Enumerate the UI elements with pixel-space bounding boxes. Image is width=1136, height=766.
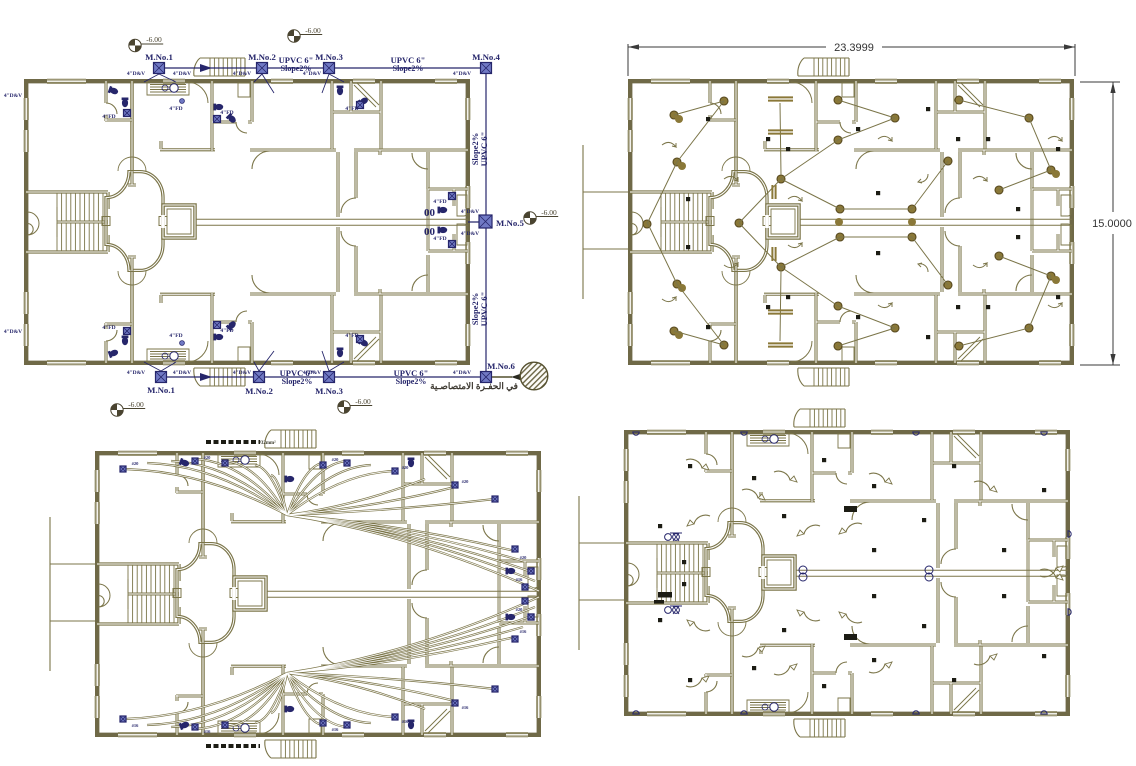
courtyard door arc bottom xyxy=(941,582,956,597)
svg-text:M.No.2: M.No.2 xyxy=(248,52,276,62)
apt1 entry door arcs at hall top xyxy=(722,157,750,171)
p3 conduit fan curves from bottom hub xyxy=(123,597,539,729)
floor plan p2 base walls xyxy=(583,58,1075,386)
p1 left bath bottom fixtures xyxy=(108,348,119,358)
svg-text:Slope2%: Slope2% xyxy=(470,133,480,166)
left bath bottom door arc xyxy=(177,702,188,713)
wall above kitchen bottom xyxy=(764,294,819,303)
p3 dashed feeder bottom xyxy=(206,744,260,748)
apt1 entry door arcs at hall bottom xyxy=(722,271,750,285)
left bath top door arc xyxy=(710,103,721,114)
p1 apt2 bath top fixtures xyxy=(214,104,224,111)
external stair bottom xyxy=(194,368,245,386)
p2 right dimension line 15.0000 xyxy=(1080,82,1120,365)
apt1 entry door arcs at hall top xyxy=(718,508,746,522)
bath3 top shower diagonal xyxy=(425,455,450,479)
right room door arc bottom xyxy=(1012,626,1028,642)
vestibule door arc bottom xyxy=(258,713,279,734)
svg-text:4"D&V: 4"D&V xyxy=(4,329,22,335)
p2 bar feed wires xyxy=(780,103,781,341)
apt2 bath shower top xyxy=(842,83,854,97)
duct opening xyxy=(161,215,165,228)
long wall y=71 right segments xyxy=(425,522,539,527)
stair rails xyxy=(128,579,179,609)
courtyard door arc top xyxy=(341,198,356,213)
apt2 living door arc xyxy=(252,151,270,169)
bath3 top shower diagonal xyxy=(354,83,379,107)
stair treads xyxy=(661,193,707,251)
apt2 bath walls top xyxy=(812,432,852,502)
long wall y=215 right segments xyxy=(425,661,539,666)
hall party wall stubs xyxy=(199,543,207,643)
svg-text:#20: #20 xyxy=(520,555,528,560)
external stair top xyxy=(794,409,845,427)
party wall upper xyxy=(130,81,134,171)
outer wall windows xyxy=(118,451,157,456)
right bath complex walls xyxy=(1028,540,1068,602)
spot elevation marker top-mid xyxy=(288,30,322,42)
duct inner rect xyxy=(167,209,191,234)
duct inner rect xyxy=(238,581,262,606)
svg-text:4"D&V: 4"D&V xyxy=(4,93,22,99)
apartment divider wall bottom xyxy=(930,646,933,714)
svg-text:4"FD: 4"FD xyxy=(220,110,233,116)
apartment divider wall top xyxy=(330,81,333,149)
plan1 plumbing annotations xyxy=(4,52,525,396)
duct opening xyxy=(761,566,765,579)
svg-text:#16: #16 xyxy=(204,729,212,734)
vestibule door arc bottom xyxy=(187,341,208,362)
corridor lines xyxy=(799,219,1072,225)
svg-text:Slope2%: Slope2% xyxy=(282,377,313,386)
apt2 bath shower top xyxy=(838,434,850,448)
apt1 entry door arcs at hall top xyxy=(118,157,146,171)
duct room right of hall xyxy=(234,577,266,610)
party wall lower xyxy=(734,271,738,363)
svg-text:4"D&V: 4"D&V xyxy=(453,370,471,376)
p2 arrow symbols xyxy=(918,174,928,272)
building entry double door on left wall xyxy=(28,212,40,235)
svg-text:#16: #16 xyxy=(516,577,524,582)
p1 pipe arrow top xyxy=(200,64,212,72)
p3 right bath WC fixtures xyxy=(506,568,516,575)
vestibule door arc bottom xyxy=(791,341,812,362)
svg-text:4"FD: 4"FD xyxy=(433,199,446,205)
right room door arc top xyxy=(1016,153,1032,169)
svg-text:4"FD: 4"FD xyxy=(169,106,182,112)
p1 manhole M.No.2 bottom xyxy=(254,372,265,383)
svg-text:#20: #20 xyxy=(204,455,212,460)
courtyard inner wall with door arcs xyxy=(958,152,961,292)
svg-text:4"FD: 4"FD xyxy=(102,114,115,120)
left porch lines xyxy=(583,145,628,299)
p1 riser pipe right xyxy=(468,68,486,377)
svg-text:-6.00: -6.00 xyxy=(355,397,371,406)
p2 beam bars xyxy=(768,97,793,100)
left bath bottom walls xyxy=(176,695,203,735)
p1 manhole M.No.2 top xyxy=(257,63,268,74)
hall side tabs at corridor level xyxy=(173,589,238,598)
courtyard door arc top xyxy=(412,570,427,585)
svg-text:M.No.4: M.No.4 xyxy=(472,52,500,62)
left bath bottom walls xyxy=(705,674,732,714)
svg-text:4"D&V: 4"D&V xyxy=(461,231,479,237)
kitchen counter top xyxy=(218,454,260,467)
apt2 living top wall mirror xyxy=(850,643,936,646)
hall side tabs at corridor level xyxy=(102,217,167,226)
bath3 top walls xyxy=(333,81,381,149)
bath3 top shower diagonal xyxy=(954,434,979,458)
long wall y=215 right segments xyxy=(954,640,1068,645)
right bath complex walls xyxy=(428,189,468,251)
courtyard door arc top xyxy=(941,549,956,564)
wall below kitchen xyxy=(231,513,286,522)
svg-text:4"D&V: 4"D&V xyxy=(461,209,479,215)
kitchen counter top xyxy=(747,433,789,446)
apt2 living door arc xyxy=(856,151,874,169)
svg-text:M.No.1: M.No.1 xyxy=(145,52,173,62)
central hall stadium xyxy=(106,172,163,271)
svg-text:4"D&V: 4"D&V xyxy=(303,71,321,77)
stair room walls xyxy=(97,564,179,624)
left bath top door arc xyxy=(177,475,188,486)
left porch lines xyxy=(50,517,95,671)
svg-text:4"D&V: 4"D&V xyxy=(127,370,145,376)
wall above kitchen bottom xyxy=(231,666,286,675)
stair rails xyxy=(657,558,708,588)
septic pit arrow xyxy=(492,376,512,378)
right rooms wall xyxy=(426,152,429,292)
right room door arc top xyxy=(412,153,428,169)
wall below kitchen xyxy=(764,141,819,150)
right room door arc bottom xyxy=(1016,275,1032,291)
svg-text:4"FD: 4"FD xyxy=(345,106,358,112)
corridor lines xyxy=(795,570,1068,576)
outer wall xyxy=(26,81,468,363)
p1 manhole M.No.5 right xyxy=(479,215,492,228)
floor plan p3 base walls xyxy=(50,430,542,758)
apt2 bath shower top xyxy=(238,83,250,97)
p1 manhole M.No.4 top xyxy=(481,63,492,74)
right bath shower stalls xyxy=(1061,195,1071,245)
external stair bottom xyxy=(794,719,845,737)
right bath shower stalls xyxy=(457,195,467,245)
p4 curved arrow symbols with hollow heads xyxy=(686,459,1056,687)
svg-text:#20: #20 xyxy=(516,607,524,612)
external stair top xyxy=(798,58,849,76)
p1 branch pipes top xyxy=(144,74,344,93)
p4 switch squares xyxy=(688,464,692,468)
svg-text:Slope2%: Slope2% xyxy=(393,64,424,73)
right room door arc bottom xyxy=(412,275,428,291)
svg-text:#32mm²: #32mm² xyxy=(258,440,276,446)
apt2 living bottom wall xyxy=(850,499,936,502)
right bath complex walls xyxy=(499,561,539,623)
apt2 bath walls top xyxy=(816,81,856,151)
stair room walls xyxy=(630,192,712,252)
svg-text:Slope2%: Slope2% xyxy=(396,377,427,386)
wall below kitchen xyxy=(160,141,215,150)
p1 branch pipes bottom xyxy=(144,351,344,371)
external stair top xyxy=(194,58,245,76)
p1 manhole M.No.1 top xyxy=(154,63,165,74)
p4 wall sconce circles xyxy=(633,432,1071,714)
apt2 bath door arc top xyxy=(840,122,851,133)
bath3 top shower diagonal xyxy=(958,83,983,107)
svg-text:M.No.3: M.No.3 xyxy=(315,386,343,396)
left bath bottom door arc xyxy=(706,681,717,692)
vestibule door arc top xyxy=(791,82,812,103)
apt2 living bottom wall xyxy=(321,520,407,523)
bath3 bottom walls xyxy=(933,646,981,714)
apt2 bath door arc bottom xyxy=(836,662,847,673)
kitchen sink bottom xyxy=(770,703,778,711)
duct room right of hall xyxy=(163,205,195,238)
bath3 bottom walls xyxy=(333,295,381,363)
apartment divider wall top xyxy=(934,81,937,149)
right rooms wall xyxy=(1030,152,1033,292)
apt2 bath door arc top xyxy=(836,473,847,484)
bath3 bottom shower diagonal xyxy=(954,688,979,712)
p1 pipe arrow bottom xyxy=(200,373,212,381)
external stair bottom xyxy=(265,740,316,758)
bath3 bottom walls xyxy=(404,667,452,735)
left bath bottom door arc xyxy=(106,330,117,341)
bath3 top walls xyxy=(404,453,452,521)
p1 apt2 bath bottom fixtures xyxy=(214,334,224,341)
stair rails xyxy=(661,207,712,237)
floor plan p4 base walls xyxy=(579,409,1071,737)
corridor lines xyxy=(195,219,468,225)
duct opening xyxy=(232,587,236,600)
party wall lower xyxy=(730,622,734,714)
apartment divider wall top xyxy=(401,453,404,521)
courtyard left wall xyxy=(336,152,339,292)
duct room right of hall xyxy=(763,556,795,589)
party wall lower xyxy=(130,271,134,363)
apt2 bath walls bottom xyxy=(816,293,856,363)
courtyard left wall xyxy=(936,503,939,643)
p1 right bath fixtures xyxy=(438,207,448,214)
courtyard inner wall with door arcs xyxy=(354,152,357,292)
svg-text:4"FD: 4"FD xyxy=(433,236,446,242)
kitchen sink bottom xyxy=(170,352,178,360)
svg-text:#16: #16 xyxy=(462,705,470,710)
p1 left bath top fixtures xyxy=(108,86,119,96)
apt2 bath walls bottom xyxy=(212,293,252,363)
svg-text:4"D&V: 4"D&V xyxy=(233,370,251,376)
p1 manhole M.No.3 top xyxy=(324,63,335,74)
left bath bottom walls xyxy=(105,323,132,363)
left bath top walls xyxy=(176,453,203,493)
svg-text:4"D&V: 4"D&V xyxy=(303,370,321,376)
outer wall xyxy=(97,453,539,735)
p2 paired light second bulbs xyxy=(675,115,683,123)
p1 bath3 bottom fixtures xyxy=(337,348,344,358)
p1 manhole M.No.1 bottom xyxy=(156,372,167,383)
svg-text:4"D&V: 4"D&V xyxy=(173,71,191,77)
apt2 bath shower bottom xyxy=(238,347,250,361)
stair treads xyxy=(128,565,174,623)
courtyard left wall xyxy=(940,152,943,292)
p4 corridor outlet circles xyxy=(799,566,807,574)
stair treads xyxy=(657,544,703,602)
right rooms wall xyxy=(497,524,500,664)
duct inner rect xyxy=(767,560,791,585)
svg-text:#16: #16 xyxy=(520,629,528,634)
vestibule door arc top xyxy=(787,433,808,454)
party wall upper xyxy=(730,432,734,522)
apt2 bath walls top xyxy=(212,81,252,151)
apt2 bath door arc bottom xyxy=(307,683,318,694)
bath3 top walls xyxy=(937,81,985,149)
apt2 bath walls bottom xyxy=(812,644,852,714)
party wall upper xyxy=(201,453,205,543)
plan2 electrical annotations xyxy=(643,96,1062,350)
central hall stadium xyxy=(710,172,767,271)
svg-text:-6.00: -6.00 xyxy=(541,208,557,217)
outer wall windows xyxy=(651,79,690,84)
apt2 bath walls bottom xyxy=(283,665,323,735)
corridor lines xyxy=(266,591,539,597)
right bath complex walls xyxy=(1032,189,1072,251)
kitchen counter bottom xyxy=(218,721,260,734)
plan4 power annotations xyxy=(633,432,1071,714)
duct room right of hall xyxy=(767,205,799,238)
svg-text:-6.00: -6.00 xyxy=(305,26,321,35)
courtyard door arc bottom xyxy=(341,231,356,246)
left bath top walls xyxy=(705,432,732,472)
vestibule door arc top xyxy=(187,82,208,103)
duct opening xyxy=(765,215,769,228)
apartment divider wall top xyxy=(930,432,933,500)
apt2 living top wall mirror xyxy=(854,292,940,295)
kitchen sink top xyxy=(241,456,249,464)
vestibule door arc top xyxy=(258,454,279,475)
left bath top door arc xyxy=(706,454,717,465)
apt2 bath shower top xyxy=(309,455,321,469)
kitchen counter bottom xyxy=(147,349,189,362)
p2 corridor lights xyxy=(835,218,843,226)
apt2 bath door arc bottom xyxy=(840,311,851,322)
apartment divider wall bottom xyxy=(401,667,404,735)
bath3 bottom shower diagonal xyxy=(425,709,450,733)
svg-text:#20: #20 xyxy=(132,461,140,466)
spot elevation marker plan3 right xyxy=(338,401,372,413)
svg-text:4"D&V: 4"D&V xyxy=(173,370,191,376)
party wall lower xyxy=(201,643,205,735)
floor plan p1 base walls xyxy=(24,58,471,386)
party wall upper xyxy=(734,81,738,171)
wall above kitchen bottom xyxy=(160,294,215,303)
p2 vertical beam bar xyxy=(772,185,775,261)
p3 dashed feeder top xyxy=(206,440,260,444)
bath3 bottom shower diagonal xyxy=(958,337,983,361)
apt2 living bottom wall xyxy=(250,148,336,151)
p2 arrow hook symbols xyxy=(662,136,1062,307)
kitchen counter top xyxy=(147,82,189,95)
svg-text:في الحفـرة الامتصاصـية: في الحفـرة الامتصاصـية xyxy=(430,381,518,392)
svg-text:4"FD: 4"FD xyxy=(169,333,182,339)
p4 fan symbols near stair xyxy=(665,534,672,541)
building entry double door on left wall xyxy=(99,584,111,607)
courtyard door arc bottom xyxy=(412,603,427,618)
apartment divider wall bottom xyxy=(330,295,333,363)
apt1 entry door arcs at hall bottom xyxy=(118,271,146,285)
apt2 bath shower bottom xyxy=(309,719,321,733)
apt2 bath door arc bottom xyxy=(236,311,247,322)
courtyard door arc top xyxy=(945,198,960,213)
outer wall windows xyxy=(647,430,686,435)
long wall y=71 right segments xyxy=(958,150,1072,155)
svg-text:-6.00: -6.00 xyxy=(146,35,162,44)
spot elevation marker plan3 left xyxy=(111,404,145,416)
central hall stadium xyxy=(706,523,763,622)
svg-text:4"D&V: 4"D&V xyxy=(127,71,145,77)
apt2 living top wall mirror xyxy=(250,292,336,295)
svg-text:M.No.6: M.No.6 xyxy=(487,361,515,371)
p4 panel at stair xyxy=(658,592,672,598)
stair rails xyxy=(57,207,108,237)
vestibule door arc bottom xyxy=(787,692,808,713)
p1 manhole M.No.3 bottom xyxy=(324,372,335,383)
bath3 bottom shower diagonal xyxy=(354,337,379,361)
stair treads xyxy=(57,193,103,251)
svg-text:#20: #20 xyxy=(402,465,410,470)
hall side tabs at corridor level xyxy=(706,217,771,226)
apt2 bath door arc top xyxy=(236,122,247,133)
apt2 bath walls top xyxy=(283,453,323,523)
svg-text:#20: #20 xyxy=(462,479,470,484)
svg-text:UPVC 6": UPVC 6" xyxy=(479,292,489,327)
svg-text:UPVC 6": UPVC 6" xyxy=(479,132,489,167)
hall party wall stubs xyxy=(128,171,136,271)
bath3 top walls xyxy=(933,432,981,500)
p2 wiring lines xyxy=(647,100,1051,346)
svg-text:00: 00 xyxy=(424,207,436,219)
left bath bottom door arc xyxy=(710,330,721,341)
right room door arc bottom xyxy=(483,647,499,663)
left porch lines xyxy=(579,496,624,650)
svg-text:M.No.5: M.No.5 xyxy=(496,218,524,228)
svg-text:4"FD: 4"FD xyxy=(345,333,358,339)
apartment divider wall bottom xyxy=(934,295,937,363)
p4 panel right xyxy=(844,506,857,512)
apt2 bath door arc top xyxy=(307,494,318,505)
svg-text:#16: #16 xyxy=(332,727,340,732)
apt2 living door arc xyxy=(323,523,341,541)
kitchen sink top xyxy=(170,84,178,92)
stair room walls xyxy=(626,543,708,603)
kitchen counter bottom xyxy=(747,700,789,713)
apt2 living door arc xyxy=(852,502,870,520)
svg-text:-6.00: -6.00 xyxy=(128,400,144,409)
external stair bottom xyxy=(798,368,849,386)
right bath shower stalls xyxy=(528,567,538,617)
wall above kitchen bottom xyxy=(760,645,815,654)
courtyard door arc bottom xyxy=(945,231,960,246)
courtyard inner wall with door arcs xyxy=(954,503,957,643)
spot elevation marker at M.No.5 xyxy=(524,212,558,224)
plan3 wiring annotations xyxy=(120,440,539,746)
svg-text:23.3999: 23.3999 xyxy=(834,42,874,54)
p1 bath3 top fixtures xyxy=(337,86,344,96)
apt2 bath shower bottom xyxy=(838,698,850,712)
right rooms wall xyxy=(1026,503,1029,643)
duct inner rect xyxy=(771,209,795,234)
svg-text:M.No.2: M.No.2 xyxy=(245,386,273,396)
p1 4"FD floor drain dots xyxy=(180,99,185,104)
